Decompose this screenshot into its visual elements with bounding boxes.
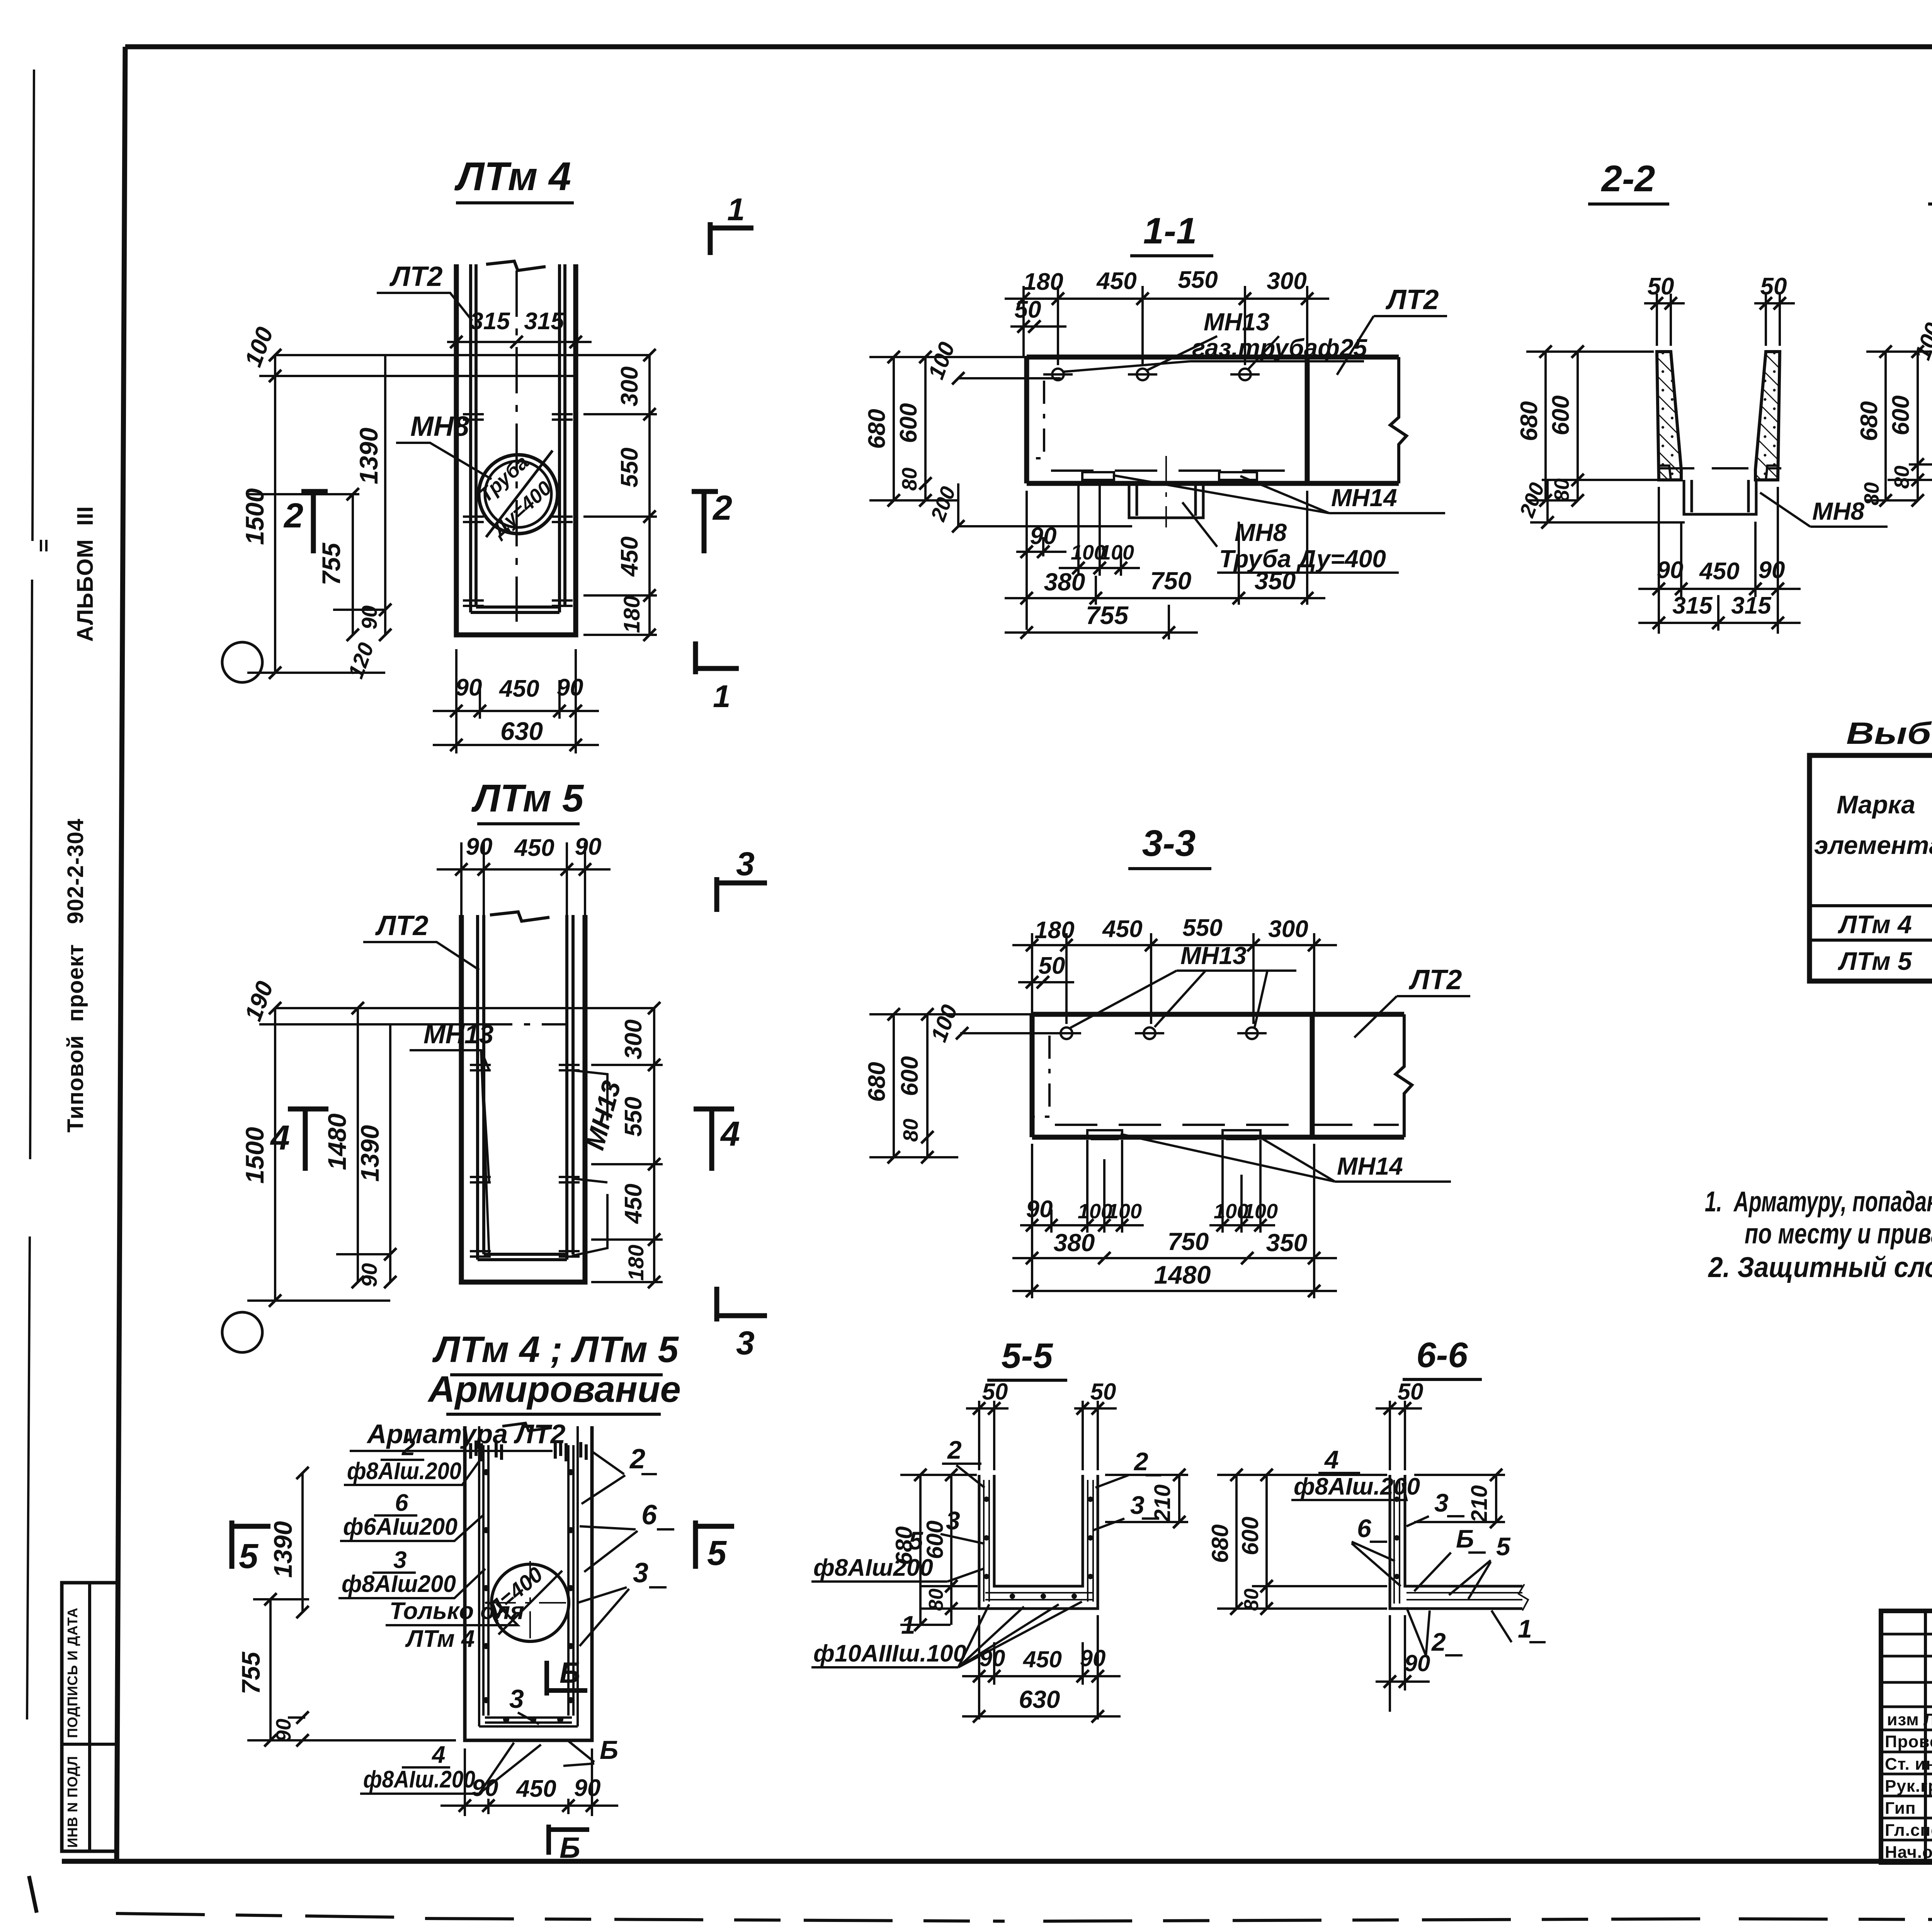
svg-text:80: 80 bbox=[1550, 478, 1573, 502]
svg-text:450: 450 bbox=[1699, 558, 1739, 585]
svg-text:2: 2 bbox=[712, 489, 732, 527]
svg-text:Б: Б bbox=[560, 1832, 580, 1864]
svg-text:90: 90 bbox=[1657, 557, 1684, 583]
svg-text:Б: Б bbox=[560, 1656, 580, 1689]
svg-text:50: 50 bbox=[1015, 296, 1041, 323]
embed marks on walls bbox=[470, 1065, 580, 1070]
svg-text:Нач.отд.: Нач.отд. bbox=[1885, 1843, 1932, 1862]
svg-text:80: 80 bbox=[1240, 1588, 1263, 1611]
svg-text:ЛТ2: ЛТ2 bbox=[389, 261, 443, 292]
svg-text:газ.трубаф25: газ.трубаф25 bbox=[1192, 334, 1368, 362]
title block bbox=[1881, 1611, 1932, 1911]
svg-text:680: 680 bbox=[864, 1062, 890, 1102]
svg-text:750: 750 bbox=[1150, 567, 1192, 595]
section mark 2 left bbox=[301, 492, 328, 553]
left chains bbox=[900, 1475, 978, 1625]
svg-text:Выборка стали на 1 элемент ,: Выборка стали на 1 элемент , кг bbox=[1846, 716, 1932, 750]
plan view LTm5 bbox=[222, 777, 767, 1414]
channel outline bbox=[456, 264, 576, 635]
svg-text:100: 100 bbox=[240, 324, 279, 371]
channel outline bbox=[461, 915, 585, 1282]
svg-text:ф8АIш.200: ф8АIш.200 bbox=[347, 1458, 461, 1485]
bottom scan dashed line bbox=[116, 1913, 1932, 1921]
svg-text:315: 315 bbox=[1731, 592, 1772, 619]
left dim chains bbox=[247, 355, 385, 673]
left columns bbox=[1925, 1611, 1932, 1862]
plan view LTm4 bbox=[222, 154, 753, 753]
svg-text:450: 450 bbox=[515, 1776, 556, 1802]
svg-text:450: 450 bbox=[620, 1184, 647, 1224]
svg-text:5: 5 bbox=[707, 1534, 727, 1573]
svg-text:80: 80 bbox=[1890, 466, 1913, 489]
rebar lines bbox=[984, 1480, 1093, 1602]
svg-text:210: 210 bbox=[1150, 1485, 1175, 1522]
svg-text:2: 2 bbox=[1133, 1447, 1148, 1476]
svg-text:750: 750 bbox=[1168, 1228, 1209, 1255]
svg-text:190: 190 bbox=[240, 978, 279, 1025]
svg-text:Гип: Гип bbox=[1885, 1799, 1916, 1818]
svg-text:МН14: МН14 bbox=[1337, 1152, 1403, 1180]
body outline bbox=[1027, 357, 1399, 483]
left dims bbox=[869, 1014, 1061, 1157]
section mark B mid bbox=[547, 1661, 587, 1696]
svg-text:90: 90 bbox=[1405, 1650, 1430, 1676]
svg-text:5-5: 5-5 bbox=[1002, 1336, 1054, 1376]
svg-text:5: 5 bbox=[909, 1526, 923, 1555]
svg-text:550: 550 bbox=[620, 1097, 647, 1136]
svg-text:1480: 1480 bbox=[1154, 1260, 1211, 1289]
svg-text:350: 350 bbox=[1255, 567, 1296, 595]
section mark 5 right bbox=[696, 1520, 734, 1569]
plates bbox=[1087, 1130, 1122, 1137]
svg-text:1390: 1390 bbox=[355, 1125, 384, 1182]
svg-text:ф6АIш200: ф6АIш200 bbox=[343, 1514, 457, 1540]
section mark B bottom bbox=[549, 1825, 589, 1855]
embed plates MN14 bbox=[1082, 472, 1114, 480]
svg-text:550: 550 bbox=[616, 447, 643, 487]
svg-text:МН8: МН8 bbox=[1812, 497, 1865, 525]
U outline bbox=[979, 1475, 1098, 1609]
left wall hatched bbox=[1657, 352, 1681, 480]
svg-text:180: 180 bbox=[1034, 917, 1074, 944]
svg-text:Б: Б bbox=[600, 1735, 618, 1765]
L outline bbox=[1390, 1475, 1522, 1609]
svg-text:МН8: МН8 bbox=[410, 411, 469, 442]
left dim chains bbox=[1866, 352, 1932, 500]
hole circle D=400 bbox=[492, 1564, 569, 1641]
notes bbox=[1705, 1185, 1932, 1283]
holes for MN13 bbox=[1052, 369, 1064, 380]
svg-text:315: 315 bbox=[524, 308, 565, 335]
svg-text:Труба Ду=400: Труба Ду=400 bbox=[1219, 545, 1386, 573]
svg-text:ЛТ2: ЛТ2 bbox=[375, 910, 429, 941]
svg-text:ЛТм 4: ЛТм 4 bbox=[405, 1626, 475, 1652]
svg-text:ф8АIш.200: ф8АIш.200 bbox=[363, 1766, 475, 1793]
svg-text:1-1: 1-1 bbox=[1143, 210, 1197, 252]
reference lines + dashed axis bbox=[259, 1008, 654, 1024]
svg-text:50: 50 bbox=[1039, 952, 1065, 979]
svg-text:4: 4 bbox=[720, 1115, 740, 1153]
svg-text:изм: изм bbox=[1887, 1710, 1919, 1729]
svg-text:680: 680 bbox=[1207, 1524, 1233, 1563]
svg-text:по месту и приварить к корпусу: по месту и приварить к корпусу трубы МН8 bbox=[1745, 1218, 1932, 1250]
MN8 tube bbox=[1684, 480, 1756, 514]
svg-text:90: 90 bbox=[574, 1775, 601, 1801]
svg-text:300: 300 bbox=[1267, 268, 1306, 294]
svg-text:300: 300 bbox=[620, 1019, 647, 1059]
svg-text:ф10АIIIш.100: ф10АIIIш.100 bbox=[813, 1640, 966, 1667]
svg-text:450: 450 bbox=[1102, 916, 1142, 942]
section mark 1 top bbox=[710, 222, 753, 255]
svg-text:МН13: МН13 bbox=[1180, 942, 1247, 969]
left paper edge dashed line bbox=[27, 70, 34, 1719]
svg-text:755: 755 bbox=[236, 1651, 265, 1694]
svg-text:180: 180 bbox=[619, 596, 645, 633]
svg-text:600: 600 bbox=[922, 1520, 948, 1559]
svg-text:315: 315 bbox=[470, 308, 510, 335]
svg-text:Армирование: Армирование bbox=[427, 1369, 681, 1410]
svg-text:755: 755 bbox=[1086, 601, 1129, 629]
svg-text:3: 3 bbox=[393, 1547, 406, 1573]
svg-text:Проверил: Проверил bbox=[1885, 1732, 1932, 1751]
svg-text:элемента: элемента bbox=[1814, 831, 1932, 859]
svg-text:600: 600 bbox=[1548, 395, 1574, 435]
svg-text:450: 450 bbox=[1023, 1646, 1062, 1672]
section mark 4 right bbox=[694, 1109, 734, 1171]
svg-text:200: 200 bbox=[1515, 480, 1549, 520]
svg-text:ф8АIш.200: ф8АIш.200 bbox=[1294, 1473, 1420, 1500]
svg-text:1: 1 bbox=[901, 1611, 915, 1639]
svg-text:450: 450 bbox=[514, 835, 554, 861]
svg-text:2: 2 bbox=[629, 1444, 645, 1475]
svg-text:755: 755 bbox=[317, 543, 345, 585]
svg-text:680: 680 bbox=[864, 409, 890, 449]
svg-text:ЛТм 5: ЛТм 5 bbox=[1838, 947, 1912, 975]
svg-text:Типовой проект 902-2-304: Типовой проект 902-2-304 bbox=[63, 818, 88, 1133]
left margin vertical captions bbox=[41, 506, 98, 1133]
section mark 3 top bbox=[717, 877, 767, 912]
svg-text:90: 90 bbox=[980, 1645, 1005, 1671]
svg-text:3: 3 bbox=[509, 1684, 524, 1714]
svg-text:1: 1 bbox=[1518, 1614, 1532, 1643]
table: Vyborka stali bbox=[1810, 716, 1932, 981]
section 6-6 bbox=[1207, 1335, 1546, 1712]
svg-text:6: 6 bbox=[395, 1490, 408, 1516]
left dims bbox=[869, 357, 1132, 526]
svg-text:680: 680 bbox=[1856, 401, 1883, 441]
svg-text:2: 2 bbox=[947, 1435, 962, 1464]
svg-text:3: 3 bbox=[736, 1325, 755, 1362]
svg-text:3: 3 bbox=[1130, 1491, 1145, 1519]
MN8 tube below bbox=[1129, 483, 1203, 518]
svg-text:100: 100 bbox=[1107, 1200, 1142, 1223]
svg-text:80: 80 bbox=[899, 1119, 922, 1142]
stirrup hooks at top bbox=[471, 1440, 502, 1461]
svg-text:300: 300 bbox=[616, 366, 643, 406]
svg-text:90: 90 bbox=[466, 833, 493, 860]
section mark 3 bottom bbox=[717, 1287, 767, 1321]
right dim chain bbox=[583, 355, 657, 635]
body outline bbox=[1032, 1014, 1404, 1137]
svg-text:Б: Б bbox=[1456, 1524, 1474, 1553]
MN8 pipe circle bbox=[479, 455, 558, 534]
svg-text:3: 3 bbox=[946, 1506, 960, 1535]
svg-text:450: 450 bbox=[1096, 268, 1136, 294]
svg-text:1500: 1500 bbox=[240, 488, 269, 545]
svg-text:1. Арматуру, попадающую в отв: 1. Арматуру, попадающую в отверстие, обр… bbox=[1705, 1185, 1932, 1218]
section mark 5 left bbox=[232, 1520, 270, 1569]
svg-text:90: 90 bbox=[575, 833, 602, 860]
svg-text:630: 630 bbox=[1019, 1685, 1060, 1713]
section mark 4 left bbox=[288, 1109, 328, 1171]
svg-text:180: 180 bbox=[624, 1245, 648, 1281]
svg-text:50: 50 bbox=[1090, 1379, 1116, 1405]
svg-text:550: 550 bbox=[1182, 915, 1222, 941]
channel outline bbox=[465, 1426, 592, 1740]
svg-text:350: 350 bbox=[1266, 1229, 1308, 1257]
svg-text:600: 600 bbox=[896, 1056, 923, 1096]
inner wall lines bbox=[471, 264, 565, 612]
svg-text:МН14: МН14 bbox=[1331, 484, 1397, 512]
svg-text:ЛТм 4: ЛТм 4 bbox=[1838, 910, 1912, 939]
svg-text:2: 2 bbox=[1431, 1628, 1446, 1656]
svg-text:5: 5 bbox=[1496, 1532, 1511, 1561]
svg-text:380: 380 bbox=[1054, 1229, 1095, 1257]
svg-text:ИНВ N ПОДЛ: ИНВ N ПОДЛ bbox=[65, 1756, 80, 1848]
svg-text:80: 80 bbox=[925, 1588, 947, 1611]
svg-text:5: 5 bbox=[239, 1537, 259, 1576]
svg-text:50: 50 bbox=[1398, 1379, 1423, 1405]
svg-text:4: 4 bbox=[1324, 1445, 1339, 1474]
svg-text:3-3: 3-3 bbox=[1142, 823, 1196, 864]
svg-text:100: 100 bbox=[923, 339, 960, 383]
svg-text:ф8АIш200: ф8АIш200 bbox=[342, 1571, 456, 1597]
svg-text:6-6: 6-6 bbox=[1417, 1335, 1468, 1375]
svg-text:3: 3 bbox=[633, 1558, 648, 1588]
section 5-5 bbox=[811, 1336, 1188, 1723]
svg-text:50: 50 bbox=[982, 1379, 1008, 1405]
reinforcement view LTm4/LTm5 bbox=[232, 1419, 734, 1864]
svg-text:Гл.спец.: Гл.спец. bbox=[1885, 1821, 1932, 1840]
svg-text:1390: 1390 bbox=[354, 427, 383, 484]
svg-text:2: 2 bbox=[283, 497, 303, 535]
svg-text:1500: 1500 bbox=[240, 1127, 269, 1184]
svg-text:ф8АIш200: ф8АIш200 bbox=[813, 1554, 933, 1581]
long reference lines top bbox=[259, 355, 650, 376]
svg-text:600: 600 bbox=[1237, 1517, 1263, 1555]
svg-text:80: 80 bbox=[898, 468, 921, 491]
svg-text:1: 1 bbox=[727, 192, 745, 227]
svg-text:450: 450 bbox=[498, 675, 539, 702]
svg-text:90: 90 bbox=[357, 1263, 381, 1287]
svg-text:90: 90 bbox=[272, 1719, 295, 1742]
svg-text:Лист: Лист bbox=[1923, 1710, 1932, 1729]
svg-text:90: 90 bbox=[456, 674, 482, 701]
svg-text:6: 6 bbox=[641, 1500, 657, 1531]
svg-text:АЛЬБОМ III: АЛЬБОМ III bbox=[73, 506, 98, 642]
svg-text:4: 4 bbox=[431, 1742, 445, 1768]
svg-text:200: 200 bbox=[926, 483, 960, 524]
svg-text:300: 300 bbox=[1268, 916, 1308, 942]
left dim chains bbox=[1526, 352, 1685, 522]
svg-text:6: 6 bbox=[1357, 1514, 1372, 1543]
svg-text:ЛТм 5: ЛТм 5 bbox=[471, 777, 584, 820]
svg-text:2. Защитный слой бетона 20 мм.: 2. Защитный слой бетона 20 мм. bbox=[1708, 1251, 1932, 1283]
svg-text:210: 210 bbox=[1467, 1485, 1492, 1523]
inventory strip table bottom-left bbox=[62, 1583, 117, 1851]
svg-text:3: 3 bbox=[1434, 1488, 1449, 1517]
svg-text:2-2: 2-2 bbox=[1601, 158, 1655, 199]
svg-text:630: 630 bbox=[500, 717, 543, 745]
grid bubble bbox=[222, 642, 262, 682]
section 1-1 bbox=[864, 210, 1447, 639]
svg-text:2: 2 bbox=[401, 1434, 415, 1461]
svg-text:Марка: Марка bbox=[1837, 790, 1915, 819]
center axis bbox=[515, 270, 518, 622]
svg-text:600: 600 bbox=[895, 403, 922, 443]
svg-text:50: 50 bbox=[1760, 273, 1787, 300]
svg-text:90: 90 bbox=[357, 605, 381, 629]
svg-text:680: 680 bbox=[1516, 401, 1543, 441]
svg-text:Рук.гр.: Рук.гр. bbox=[1885, 1777, 1932, 1796]
svg-text:ЛТ2: ЛТ2 bbox=[1408, 964, 1462, 995]
svg-text:ЛТ2: ЛТ2 bbox=[1385, 284, 1439, 315]
svg-text:4: 4 bbox=[270, 1119, 290, 1157]
left dim chains bbox=[247, 1008, 390, 1301]
svg-text:450: 450 bbox=[616, 536, 643, 577]
section mark 1 bottom bbox=[696, 641, 739, 674]
svg-text:90: 90 bbox=[472, 1775, 498, 1801]
svg-text:80: 80 bbox=[1860, 482, 1883, 505]
right dim chain bbox=[591, 1008, 663, 1282]
svg-text:1480: 1480 bbox=[323, 1113, 351, 1170]
section 3-3 bbox=[864, 823, 1470, 1298]
right wall hatched bbox=[1755, 352, 1780, 480]
section 4-4 bbox=[1856, 158, 1932, 603]
svg-text:ПОДПИСЬ И ДАТА: ПОДПИСЬ И ДАТА bbox=[65, 1607, 80, 1738]
svg-text:Арматура ЛТ2: Арматура ЛТ2 bbox=[366, 1419, 566, 1449]
svg-text:ЛТм 4 ; ЛТм 5: ЛТм 4 ; ЛТм 5 bbox=[432, 1329, 679, 1370]
section 2-2 bbox=[1515, 158, 1888, 634]
svg-text:380: 380 bbox=[1044, 568, 1085, 596]
left rows bbox=[1881, 1634, 1932, 1840]
svg-text:1: 1 bbox=[713, 679, 731, 714]
svg-text:МН13: МН13 bbox=[1204, 308, 1270, 336]
svg-text:3: 3 bbox=[736, 845, 755, 883]
svg-text:550: 550 bbox=[1178, 267, 1218, 293]
svg-text:100: 100 bbox=[1099, 541, 1134, 564]
holes bbox=[1061, 1027, 1072, 1039]
svg-text:1390: 1390 bbox=[269, 1521, 297, 1578]
wall rebar lines with dots bbox=[483, 1445, 573, 1716]
svg-text:315: 315 bbox=[1672, 592, 1713, 619]
svg-text:90: 90 bbox=[1759, 557, 1785, 583]
dims left bbox=[247, 1473, 456, 1740]
svg-text:600: 600 bbox=[1888, 395, 1914, 435]
svg-text:90: 90 bbox=[1026, 1196, 1053, 1223]
svg-text:Ст. инж.: Ст. инж. bbox=[1885, 1755, 1932, 1774]
embed plate marks on walls bbox=[463, 414, 573, 420]
svg-text:120: 120 bbox=[343, 639, 378, 682]
section mark 2 right bbox=[692, 492, 718, 553]
svg-text:ЛТм 4: ЛТм 4 bbox=[454, 154, 571, 199]
left chains bbox=[1217, 1475, 1387, 1609]
svg-text:МН8: МН8 bbox=[1235, 519, 1287, 546]
